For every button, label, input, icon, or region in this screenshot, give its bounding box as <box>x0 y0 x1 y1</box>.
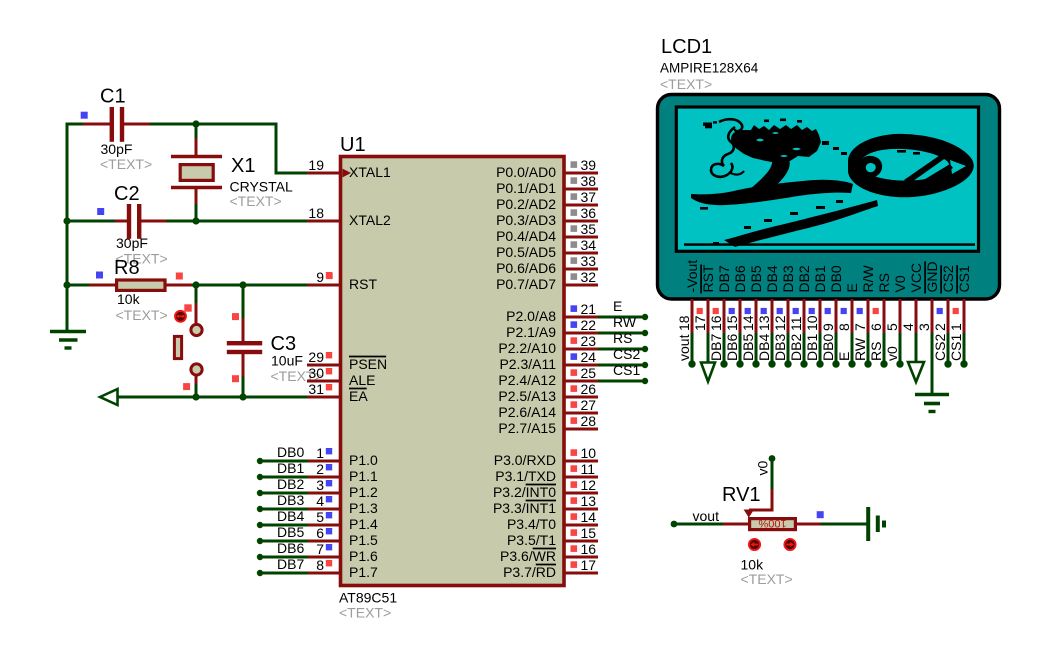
LCD1 pin 6 wire <box>883 333 886 364</box>
terminal dot DB5 <box>257 538 263 544</box>
LCD1 pin 15 state square <box>729 308 735 314</box>
LCD1 pin 1 wire <box>963 333 966 364</box>
v0 terminal dot <box>769 455 776 462</box>
LCD1 pin 9 state square <box>825 308 831 314</box>
svg-text:12: 12 <box>772 315 788 331</box>
svg-text:7: 7 <box>852 323 868 331</box>
svg-text:22: 22 <box>581 317 597 333</box>
U1 pin 19 XTAL1 <box>307 172 340 175</box>
state square button top <box>184 304 191 311</box>
svg-text:31: 31 <box>308 381 324 397</box>
LCD1 pin 13 terminal dot <box>768 360 775 367</box>
LCD1 pin 16 terminal dot <box>720 360 727 367</box>
U1 pin 7 P1.6 <box>307 556 340 559</box>
wire left rail vertical <box>66 123 69 286</box>
U1 pin 24 P2.3/A11 <box>564 364 598 367</box>
svg-text:16: 16 <box>708 315 724 331</box>
U1 pin 37 P0.2/AD2 <box>564 204 598 207</box>
svg-text:39: 39 <box>581 157 597 173</box>
svg-text:34: 34 <box>581 237 597 253</box>
svg-text:P3.5/T1: P3.5/T1 <box>507 532 556 548</box>
wire X1 bottom stub <box>195 188 198 206</box>
junction node left rail / C2 <box>63 217 70 224</box>
svg-text:P1.4: P1.4 <box>349 516 378 532</box>
svg-text:17: 17 <box>581 557 597 573</box>
XTAL1 input arrow <box>343 169 352 178</box>
state square button bottom <box>183 383 190 390</box>
capacitor C3 <box>227 341 262 345</box>
LCD1 pin 7 wire <box>867 333 870 364</box>
svg-text:8: 8 <box>316 557 324 573</box>
U1 pin 1 P1.0 <box>307 460 340 463</box>
svg-text:38: 38 <box>581 173 597 189</box>
LCD1 pin 9 wire <box>835 333 838 364</box>
IC U1 body <box>341 157 565 586</box>
U1 pin 14 P3.4/T0 <box>564 524 598 527</box>
svg-text:vout: vout <box>693 508 720 524</box>
svg-text:28: 28 <box>581 413 597 429</box>
svg-text:35: 35 <box>581 221 597 237</box>
wire RST row <box>67 284 91 287</box>
terminal dot DB0 <box>257 458 263 464</box>
state square C3 bottom <box>232 375 239 382</box>
LCD1 pin 6 state square <box>873 308 879 314</box>
svg-text:17: 17 <box>692 315 708 331</box>
wire EA row <box>118 396 309 399</box>
U1 pin 13 P3.3/INT1 <box>564 508 598 511</box>
svg-text:P2.4/A12: P2.4/A12 <box>498 372 556 388</box>
LCD1 pin 11 stub <box>803 299 806 335</box>
RV1 actuator decrease <box>749 539 760 550</box>
svg-text:<TEXT>: <TEXT> <box>230 193 282 209</box>
svg-text:CS2: CS2 <box>613 346 640 362</box>
svg-text:P1.7: P1.7 <box>349 564 378 580</box>
U1 pin 34 P0.5/AD5 <box>564 252 598 255</box>
junction node X1 bottom / C2 <box>192 217 199 224</box>
svg-text:v0: v0 <box>755 461 771 476</box>
svg-text:RS: RS <box>613 330 632 346</box>
svg-text:P0.3/AD3: P0.3/AD3 <box>496 212 556 228</box>
ground symbol GND1 <box>66 285 69 331</box>
svg-text:V0: V0 <box>892 275 908 292</box>
junction node left rail / RST <box>63 281 70 288</box>
terminal dot CS2 <box>642 362 648 368</box>
svg-text:16: 16 <box>581 541 597 557</box>
U1 pin 22 P2.1/A9 <box>564 332 598 335</box>
terminal dot E <box>642 314 648 320</box>
svg-text:AMPIRE128X64: AMPIRE128X64 <box>660 61 759 76</box>
LCD1 pin 14 stub <box>755 299 758 335</box>
svg-text:30pF: 30pF <box>101 141 133 157</box>
svg-text:P1.3: P1.3 <box>349 500 378 516</box>
ground symbol GND3 (rotated) <box>866 507 870 541</box>
LCD1 pin 5 stub <box>899 299 902 335</box>
svg-text:AT89C51: AT89C51 <box>339 590 397 606</box>
LCD1 pin 1 terminal dot <box>960 360 967 367</box>
U1 pin 12 P3.2/INT0 <box>564 492 598 495</box>
U1 pin 26 P2.5/A13 <box>564 396 598 399</box>
svg-text:5: 5 <box>316 509 324 525</box>
svg-text:RST: RST <box>700 264 716 292</box>
svg-text:29: 29 <box>308 349 324 365</box>
LCD1 pin 10 state square <box>809 308 815 314</box>
terminal dot DB4 <box>257 522 263 528</box>
U1 pin 33 P0.6/AD6 <box>564 268 598 271</box>
U1 pin 29 PSEN <box>307 364 340 367</box>
LCD1 pin 11 terminal dot <box>800 360 807 367</box>
junction node button bottom <box>192 393 199 400</box>
svg-text:RV1: RV1 <box>722 484 761 506</box>
LCD1 pin 15 terminal dot <box>736 360 743 367</box>
svg-text:P1.1: P1.1 <box>349 468 378 484</box>
svg-text:14: 14 <box>581 509 597 525</box>
LCD1 pin 8 state square <box>841 308 847 314</box>
wire C3 top <box>242 285 245 319</box>
junction node C3 bottom <box>239 393 246 400</box>
button click actuator <box>175 311 186 322</box>
svg-text:R/W: R/W <box>860 265 876 293</box>
LCD1 pin 8 stub <box>851 299 854 335</box>
terminal dot DB6 <box>257 554 263 560</box>
svg-text:E: E <box>613 298 622 314</box>
svg-text:P2.1/A9: P2.1/A9 <box>506 324 556 340</box>
svg-text:14: 14 <box>740 315 756 331</box>
LCD1 RST terminal wire <box>707 333 710 363</box>
svg-text:P0.6/AD6: P0.6/AD6 <box>496 260 556 276</box>
junction node C1/X1 <box>192 120 199 127</box>
svg-text:DB3: DB3 <box>277 492 304 508</box>
U1 pin 3 P1.2 <box>307 492 340 495</box>
svg-text:P1.2: P1.2 <box>349 484 378 500</box>
LCD1 pin 11 wire <box>803 333 806 364</box>
svg-text:XTAL1: XTAL1 <box>349 164 391 180</box>
LCD1 pin 2 stub <box>947 299 950 335</box>
svg-text:RS: RS <box>876 273 892 292</box>
svg-text:X1: X1 <box>231 155 255 177</box>
U1 pin 27 P2.6/A14 <box>564 412 598 415</box>
U1 pin 23 P2.2/A10 <box>564 348 598 351</box>
LCD1 pin 7 stub <box>867 299 870 335</box>
svg-text:P0.5/AD5: P0.5/AD5 <box>496 244 556 260</box>
svg-text:P1.5: P1.5 <box>349 532 378 548</box>
wire C1-to-XTAL1 corner <box>275 124 278 175</box>
svg-text:P3.6/WR: P3.6/WR <box>500 548 556 564</box>
svg-text:EA: EA <box>349 388 368 404</box>
svg-text:4: 4 <box>316 493 324 509</box>
svg-text:P2.6/A14: P2.6/A14 <box>498 404 556 420</box>
U1 pin 31 EA <box>307 396 340 399</box>
LCD1 pin 9 stub <box>835 299 838 335</box>
svg-text:LCD1: LCD1 <box>661 36 712 58</box>
svg-text:P1.0: P1.0 <box>349 452 378 468</box>
LCD1 pin 12 wire <box>787 333 790 364</box>
capacitor C1 <box>83 123 110 126</box>
LCD1 pin 14 wire <box>755 333 758 364</box>
svg-text:P3.1/TXD: P3.1/TXD <box>495 468 556 484</box>
LCD1 RST terminal arrow <box>701 363 715 382</box>
LCD1 pin 8 wire <box>851 333 854 364</box>
svg-text:DB6: DB6 <box>732 265 748 292</box>
svg-text:VCC: VCC <box>908 263 924 293</box>
svg-text:6: 6 <box>316 525 324 541</box>
terminal dot RS <box>642 346 648 352</box>
U1 pin 28 P2.7/A15 <box>564 428 598 431</box>
svg-text:C1: C1 <box>100 86 126 108</box>
terminal dot DB3 <box>257 506 263 512</box>
wire net DB0 <box>260 460 308 463</box>
U1 pin 6 P1.5 <box>307 540 340 543</box>
svg-text:3: 3 <box>916 323 932 331</box>
svg-text:DB6: DB6 <box>724 334 740 361</box>
svg-text:1: 1 <box>948 323 964 331</box>
terminal dot RW <box>642 330 648 336</box>
svg-text:v0: v0 <box>884 346 900 361</box>
RV1 actuator increase <box>784 539 795 550</box>
terminal dot DB1 <box>257 474 263 480</box>
button pin circle bottom <box>191 364 202 375</box>
svg-text:DB1: DB1 <box>812 265 828 292</box>
state square C3 top <box>232 313 239 320</box>
state square C2 <box>97 208 104 215</box>
svg-text:CS1: CS1 <box>956 265 972 292</box>
svg-text:P1.6: P1.6 <box>349 548 378 564</box>
svg-text:9: 9 <box>316 269 324 285</box>
svg-text:R8: R8 <box>114 257 140 279</box>
svg-text:10k: 10k <box>117 291 141 307</box>
wire net DB6 <box>260 556 308 559</box>
wire net RS <box>598 348 645 351</box>
U1 pin 8 P1.7 <box>307 572 340 575</box>
LCD1 VCC terminal wire <box>915 333 918 362</box>
U1 pin 38 P0.1/AD1 <box>564 188 598 191</box>
U1 pin 5 P1.4 <box>307 524 340 527</box>
svg-text:ALE: ALE <box>349 372 375 388</box>
svg-text:DB4: DB4 <box>764 265 780 292</box>
LCD1 pin 16 stub <box>723 299 726 335</box>
svg-text:P0.1/AD1: P0.1/AD1 <box>496 180 556 196</box>
state square C1 <box>81 112 88 119</box>
wire RV1 right <box>796 523 822 526</box>
U1 pin 4 P1.3 <box>307 508 340 511</box>
RV1 wiper arrow <box>744 510 754 518</box>
wire C1 row <box>67 123 84 126</box>
button pin circle top <box>191 324 202 335</box>
wire net DB7 <box>260 572 308 575</box>
U1 pin 10 P3.0/RXD <box>564 460 598 463</box>
svg-text:P2.0/A8: P2.0/A8 <box>506 308 556 324</box>
LCD1 pin 6 terminal dot <box>880 360 887 367</box>
LCD1 pin 6 stub <box>883 299 886 335</box>
svg-text:25: 25 <box>581 365 597 381</box>
svg-text:-Vout: -Vout <box>684 260 700 293</box>
svg-text:RW: RW <box>852 337 868 361</box>
U1 pin 36 P0.3/AD3 <box>564 220 598 223</box>
wire net RW <box>598 332 645 335</box>
svg-text:10: 10 <box>804 315 820 331</box>
LCD1 GND wire <box>931 333 934 394</box>
LCD1 pin 14 state square <box>745 308 751 314</box>
svg-text:P2.5/A13: P2.5/A13 <box>498 388 556 404</box>
LCD1 pin 17 stub <box>707 299 710 335</box>
pin-9 state square <box>326 273 332 279</box>
svg-text:30pF: 30pF <box>116 235 148 251</box>
wire RV1 left <box>674 523 724 526</box>
U1 pin 21 P2.0/A8 <box>564 316 598 319</box>
LCD1 pin 10 stub <box>819 299 822 335</box>
svg-text:3: 3 <box>316 477 324 493</box>
crystal X1 <box>171 155 222 158</box>
svg-text:32: 32 <box>581 269 597 285</box>
svg-text:P2.2/A10: P2.2/A10 <box>498 340 556 356</box>
svg-text:15: 15 <box>581 525 597 541</box>
svg-text:DB1: DB1 <box>804 334 820 361</box>
svg-text:10uF: 10uF <box>271 353 303 369</box>
svg-text:13: 13 <box>756 315 772 331</box>
LCD1 pin 11 state square <box>793 308 799 314</box>
svg-text:U1: U1 <box>340 134 366 156</box>
svg-text:P2.3/A11: P2.3/A11 <box>499 356 556 372</box>
svg-text:DB5: DB5 <box>748 265 764 292</box>
svg-text:9: 9 <box>820 323 836 331</box>
svg-text:DB6: DB6 <box>277 540 304 556</box>
LCD1 pin 10 terminal dot <box>816 360 823 367</box>
LCD1 VCC terminal arrow <box>908 362 924 382</box>
terminal dot CS1 <box>642 378 648 384</box>
svg-text:4: 4 <box>900 323 916 331</box>
U1 pin 18 XTAL2 <box>307 220 340 223</box>
LCD1 pin 15 wire <box>739 333 742 364</box>
state square RV1 <box>817 511 824 518</box>
LCD1 pin 13 stub <box>771 299 774 335</box>
svg-text:13: 13 <box>581 493 597 509</box>
vout terminal dot <box>671 521 678 528</box>
LCD1 pin 1 state square <box>953 308 959 314</box>
LCD1 module body <box>658 95 1000 300</box>
svg-text:CS1: CS1 <box>948 334 964 361</box>
svg-text:36: 36 <box>581 205 597 221</box>
svg-text:DB3: DB3 <box>780 265 796 292</box>
svg-text:P0.4/AD4: P0.4/AD4 <box>496 228 556 244</box>
U1 pin 16 P3.6/WR <box>564 556 598 559</box>
svg-text:E: E <box>836 352 852 361</box>
svg-text:P3.7/RD: P3.7/RD <box>503 564 556 580</box>
LCD1 pin 5 terminal dot <box>896 360 903 367</box>
LCD1 pin 12 stub <box>787 299 790 335</box>
U1 pin 2 P1.1 <box>307 476 340 479</box>
svg-text:DB2: DB2 <box>277 476 304 492</box>
svg-text:DB0: DB0 <box>828 265 844 292</box>
resistor R8 <box>89 284 116 287</box>
U1 pin 32 P0.7/AD7 <box>564 284 598 287</box>
svg-text:P3.2/INT0: P3.2/INT0 <box>493 484 556 500</box>
svg-text:P0.2/AD2: P0.2/AD2 <box>496 196 556 212</box>
wire RV1 wiper <box>771 459 774 492</box>
state square R8 right <box>176 273 183 280</box>
wire net DB2 <box>260 492 308 495</box>
svg-text:DB7: DB7 <box>277 556 304 572</box>
LCD1 pin 5 wire <box>899 333 902 364</box>
LCD1 pin 12 state square <box>777 308 783 314</box>
U1 pin 25 P2.4/A12 <box>564 380 598 383</box>
wire net DB1 <box>260 476 308 479</box>
wire X1 top stub <box>195 123 198 141</box>
wire button bottom <box>195 376 198 386</box>
svg-text:E: E <box>844 283 860 292</box>
svg-text:18: 18 <box>676 315 692 331</box>
svg-text:8: 8 <box>836 323 852 331</box>
svg-text:P3.4/T0: P3.4/T0 <box>507 516 556 532</box>
svg-text:XTAL2: XTAL2 <box>349 212 391 228</box>
LCD1 pin 3 stub <box>931 299 934 335</box>
junction node C3 top <box>239 281 246 288</box>
wire net DB4 <box>260 524 308 527</box>
LCD1 pin 9 terminal dot <box>832 360 839 367</box>
LCD1 pin 18 terminal dot <box>688 360 695 367</box>
RV1 body <box>750 519 796 530</box>
svg-text:DB3: DB3 <box>772 334 788 361</box>
capacitor C2 <box>115 220 127 223</box>
svg-text:24: 24 <box>581 349 597 365</box>
svg-text:P3.3/INT1: P3.3/INT1 <box>493 500 556 516</box>
svg-text:21: 21 <box>581 301 597 317</box>
svg-text:33: 33 <box>581 253 597 269</box>
svg-text:2: 2 <box>932 323 948 331</box>
svg-text:RW: RW <box>613 314 637 330</box>
U1 pin 11 P3.1/TXD <box>564 476 598 479</box>
svg-text:DB5: DB5 <box>277 524 304 540</box>
svg-text:100%: 100% <box>758 517 786 529</box>
U1 pin 35 P0.4/AD4 <box>564 236 598 239</box>
LCD1 pin 14 terminal dot <box>752 360 759 367</box>
svg-text:7: 7 <box>316 541 324 557</box>
svg-text:<TEXT>: <TEXT> <box>339 605 391 621</box>
junction node button top <box>192 281 199 288</box>
LCD1 pin 2 wire <box>947 333 950 364</box>
LCD screen baseline <box>684 243 975 246</box>
svg-text:GND: GND <box>924 261 940 292</box>
svg-text:P0.0/AD0: P0.0/AD0 <box>496 164 556 180</box>
U1 pin 9 RST <box>307 284 340 287</box>
LCD1 pin 10 wire <box>819 333 822 364</box>
LCD1 pin 16 state square <box>713 308 719 314</box>
svg-text:19: 19 <box>308 157 324 173</box>
svg-text:10: 10 <box>581 445 597 461</box>
LCD1 screen <box>676 107 978 251</box>
svg-text:DB1: DB1 <box>277 460 304 476</box>
LCD1 pin 4 stub <box>915 299 918 335</box>
svg-text:DB0: DB0 <box>820 334 836 361</box>
LCD1 pin 2 state square <box>937 308 943 314</box>
svg-text:2: 2 <box>316 461 324 477</box>
wire C2 row <box>67 220 116 223</box>
svg-text:P2.7/A15: P2.7/A15 <box>498 420 556 436</box>
svg-text:1: 1 <box>316 445 324 461</box>
LCD1 pin 17 state square <box>697 308 703 314</box>
LCD dragon artwork <box>691 119 974 248</box>
svg-text:30: 30 <box>308 365 324 381</box>
wire button top <box>195 285 198 305</box>
svg-text:DB4: DB4 <box>277 508 304 524</box>
svg-text:P3.0/RXD: P3.0/RXD <box>494 452 556 468</box>
svg-text:DB7: DB7 <box>708 334 724 361</box>
svg-text:12: 12 <box>581 477 597 493</box>
LCD1 pin 2 terminal dot <box>944 360 951 367</box>
svg-text:26: 26 <box>581 381 597 397</box>
svg-text:P0.7/AD7: P0.7/AD7 <box>496 276 556 292</box>
svg-text:<TEXT>: <TEXT> <box>660 76 712 92</box>
svg-text:18: 18 <box>308 205 324 221</box>
LCD1 pin 8 terminal dot <box>848 360 855 367</box>
